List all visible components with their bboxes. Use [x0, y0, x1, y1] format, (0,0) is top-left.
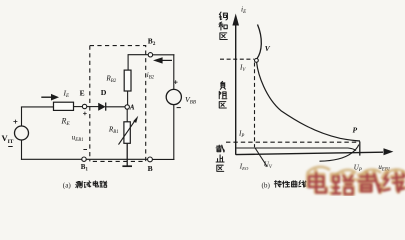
cutoff flat line	[236, 148, 356, 151]
wire node B to right branch bottom	[152, 158, 173, 160]
wire R_B2 to node A	[127, 91, 129, 105]
wire node E to diode	[87, 106, 98, 108]
dashed vertical U_V	[254, 63, 256, 148]
svg-text:P: P	[353, 126, 358, 135]
wire emitter top: source corner to R_E	[22, 106, 54, 108]
svg-text:A: A	[129, 104, 135, 112]
dashed line I_V level	[220, 58, 254, 60]
x-axis	[236, 152, 383, 154]
V_BB minus	[177, 107, 181, 109]
wire right branch vertical	[173, 55, 175, 160]
V_BB plus	[174, 80, 178, 84]
svg-text:(b): (b)	[262, 182, 271, 190]
svg-text:(a): (a)	[63, 182, 72, 190]
plus below node E	[83, 112, 87, 116]
voltage source V_BB circle	[166, 89, 181, 104]
wire B2 node to right branch top	[153, 54, 174, 56]
resistor R_B2	[124, 70, 131, 91]
leakage arc below axis	[320, 145, 359, 162]
valley point circle V	[255, 59, 259, 63]
wire R_B1 down through bottom rail to bar	[126, 143, 128, 166]
watermark	[307, 167, 405, 194]
wire left vertical branch	[21, 107, 23, 159]
svg-text:B: B	[148, 164, 153, 173]
svg-text:D: D	[101, 88, 107, 97]
V_IT minus sign	[8, 146, 13, 148]
caption (a)	[63, 181, 107, 190]
leader line for U_V	[255, 148, 267, 167]
minus above node B1	[83, 149, 87, 151]
wire B2 node left to R_B2 corner	[128, 55, 148, 70]
dashed line I_P level	[226, 141, 358, 143]
arrow I_E current	[41, 96, 51, 98]
terminal bar below R_B1	[122, 165, 132, 167]
dashed box (UJT equivalent)	[90, 46, 146, 162]
node A	[125, 105, 129, 109]
resistor R_E	[54, 102, 74, 110]
wire node A down to R_B1	[126, 109, 128, 121]
negative resistance branch curve V to P	[257, 62, 360, 141]
voltage source V_IT circle	[15, 126, 29, 140]
y-axis	[235, 25, 237, 155]
wire R_E to node E	[74, 106, 83, 108]
svg-text:E: E	[80, 88, 85, 97]
wire diode to node A	[106, 106, 125, 108]
saturation branch curve	[257, 25, 261, 59]
diode D	[98, 103, 105, 111]
resistor R_B1	[124, 122, 130, 144]
V_IT plus sign	[13, 120, 17, 124]
node E	[82, 104, 86, 108]
region text cutoff	[216, 145, 224, 171]
region text negative resistance	[219, 81, 227, 108]
node B1	[82, 157, 86, 161]
R_B1 adjustable arrow	[119, 121, 136, 145]
vertical marker at U_P	[359, 142, 361, 156]
region text saturation	[219, 12, 227, 39]
arrow i_B2	[162, 59, 172, 61]
wire bottom rail	[22, 158, 148, 160]
caption (b)	[262, 181, 307, 190]
node B	[148, 157, 153, 162]
node B2	[148, 53, 152, 57]
